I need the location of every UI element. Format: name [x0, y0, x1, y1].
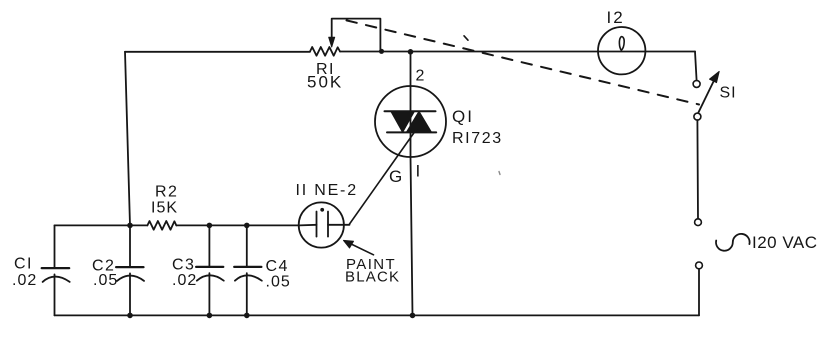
triac Q1 right triangle	[406, 111, 431, 132]
junction bottom C2	[127, 313, 133, 319]
triac Q1 left triangle	[391, 111, 415, 132]
top rail continues to neon lamp	[176, 224, 299, 226]
neon lamp left lead	[300, 224, 317, 227]
junction bottom C3	[207, 313, 213, 319]
triac Q1 internal vertical	[410, 86, 412, 157]
bottom rail	[55, 314, 700, 316]
R1 wiper arm	[332, 19, 381, 52]
lamp I2 filament loop	[619, 37, 624, 51]
triac Q1 bottom bar	[387, 131, 436, 133]
lamp I2 circle	[598, 27, 645, 74]
wire top-left horizontal	[125, 51, 310, 53]
svg-text:CI: CI	[14, 256, 33, 273]
junction top rail C3	[207, 223, 213, 229]
svg-text:C3: C3	[172, 257, 195, 274]
capacitor C2	[116, 225, 144, 315]
S1 bottom terminal	[694, 113, 701, 120]
S1 top terminal	[693, 80, 700, 87]
neon lamp I1 circle	[299, 202, 344, 247]
S1 blade	[699, 82, 714, 113]
source bottom terminal	[696, 262, 703, 269]
svg-text:2: 2	[416, 68, 426, 85]
paint black leader line	[348, 243, 374, 255]
svg-text:I2: I2	[607, 8, 625, 27]
capacitor C1	[42, 225, 70, 315]
svg-text:.02: .02	[172, 272, 197, 289]
wire left vertical	[125, 52, 130, 226]
mechanical link dashed line	[347, 20, 700, 104]
R1 wiper arrowhead	[329, 37, 335, 47]
capacitor C3	[196, 225, 224, 315]
svg-text:R2: R2	[155, 184, 178, 201]
wire source to bottom rail	[698, 269, 700, 316]
svg-text:.02: .02	[12, 272, 37, 289]
svg-text:I20 VAC: I20 VAC	[752, 233, 818, 252]
wire R1 to lamp	[340, 51, 695, 53]
sine symbol	[716, 234, 750, 251]
top rail of capacitor row	[55, 224, 148, 226]
svg-text:BLACK: BLACK	[345, 269, 400, 286]
triac Q1 top bar	[385, 110, 436, 112]
svg-text:.05: .05	[93, 272, 118, 289]
junction top rail C4	[244, 223, 250, 229]
triac Q1 circle	[375, 86, 446, 157]
svg-text:II NE-2: II NE-2	[296, 182, 358, 199]
resistor R2	[147, 221, 176, 230]
svg-text:QI: QI	[452, 107, 474, 126]
triac T2 lead	[410, 52, 412, 86]
gate wire to triac	[350, 129, 418, 225]
svg-text:C4: C4	[266, 258, 289, 275]
svg-text:50K: 50K	[307, 73, 343, 92]
wire right corner down to S1	[695, 52, 697, 81]
svg-text:RI723: RI723	[452, 130, 503, 147]
svg-text:SI: SI	[720, 85, 737, 102]
svg-text:I: I	[416, 162, 422, 181]
S1 blade arrowhead	[710, 71, 720, 82]
triac T1 lead wire to bottom rail	[411, 157, 413, 316]
neon lamp left electrode	[316, 212, 318, 237]
stray mark	[464, 36, 468, 40]
neon lamp right lead	[328, 224, 350, 226]
speck	[499, 172, 500, 175]
junction bottom triac T1	[410, 313, 416, 319]
neon lamp right electrode	[327, 212, 329, 237]
junction R1 wiper	[379, 49, 384, 54]
junction bottom C4	[244, 313, 250, 319]
capacitor C4	[234, 225, 262, 315]
junction triac T2	[408, 49, 414, 55]
wire S1 to source	[696, 120, 699, 219]
svg-text:G: G	[389, 167, 403, 186]
junction top rail C2	[127, 223, 133, 229]
neon lamp gas dot	[320, 208, 324, 212]
source top terminal	[695, 219, 702, 226]
svg-text:.05: .05	[266, 274, 291, 291]
paint black arrowhead	[344, 240, 354, 248]
svg-text:I5K: I5K	[151, 200, 178, 217]
resistor R1	[310, 47, 340, 56]
